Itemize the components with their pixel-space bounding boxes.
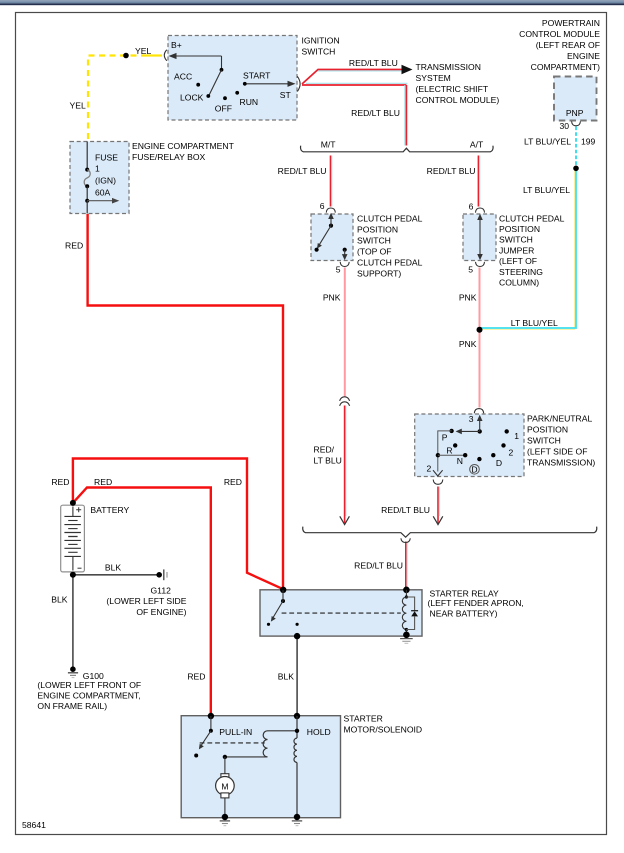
svg-text:CONTROL MODULE): CONTROL MODULE) [416,95,500,105]
svg-text:POSITION: POSITION [357,225,398,235]
clutch pedal position switch jumper box (A/T) [463,214,496,261]
connector terminal clutch switch pin 5 [340,262,349,267]
ignition position labels [174,71,292,114]
label transmission system [416,62,500,105]
svg-text:SWITCH: SWITCH [499,235,533,245]
svg-text:POSITION: POSITION [527,425,568,435]
label ignition switch [302,36,340,57]
svg-text:LOCK: LOCK [180,92,204,102]
circled D overdrive contact [470,464,480,474]
net label RED/LT BLU A/T branch [427,166,476,176]
hold winding [294,716,299,817]
svg-text:CLUTCH PEDAL: CLUTCH PEDAL [357,258,423,268]
svg-text:RED/LT BLU: RED/LT BLU [381,505,430,515]
svg-text:RED: RED [224,477,242,487]
option label A/T [470,140,484,150]
engine compartment fuse/relay box [70,142,129,214]
svg-text:SWITCH: SWITCH [357,236,391,246]
battery body [61,505,85,572]
net label LT BLU/YEL horizontal [511,318,558,328]
ignition switch internal B+ feed with arrow [169,53,224,72]
arrowhead of pin 2 wire into bottom bracket [433,516,443,524]
net label RED battery up wire [51,477,69,487]
svg-text:NEAR BATTERY): NEAR BATTERY) [430,609,498,619]
svg-text:RED: RED [65,241,83,251]
starter solenoid armature dashed link [200,742,265,744]
starter motor M [216,755,235,817]
clutch pedal position switch internal contacts and blade [315,213,334,252]
svg-text:6: 6 [320,201,325,211]
svg-text:STARTER: STARTER [344,714,383,724]
svg-text:58641: 58641 [22,820,46,830]
label clutch pedal position switch [357,214,423,279]
label starter motor/solenoid [344,714,423,735]
svg-text:BATTERY: BATTERY [90,505,129,515]
net label RED/LT BLU to transmission [349,58,398,68]
svg-text:RED: RED [51,477,69,487]
svg-text:IGNITION: IGNITION [302,36,340,46]
svg-text:(LEFT REAR OF: (LEFT REAR OF [536,40,600,50]
svg-text:RED: RED [187,671,205,681]
wire RED from fuse box to starter relay [88,214,283,589]
svg-text:3: 3 [469,414,474,424]
net label RED/LT BLU pin2 wire [381,505,430,515]
label pull-in winding [219,727,252,737]
option label M/T [321,140,337,150]
label battery [90,505,129,515]
net label YEL top [135,46,151,56]
junction node LT BLU/YEL at PCM branch [573,166,579,172]
net label BLK to G100 [51,595,68,605]
pin label B+ [171,40,182,50]
svg-text:199: 199 [581,137,596,147]
svg-text:BLK: BLK [105,563,122,573]
net label RED/LT BLU M/T branch [278,166,327,176]
arrowhead of M/T wire into bottom bracket [340,516,350,524]
label starter relay [428,589,524,619]
gear position labels P R N D 2 1 [442,431,520,468]
motor M designator [221,781,228,791]
wire RED/LT BLU M/T branch [331,156,332,207]
connector terminal park/neutral pin 2 [433,480,443,485]
svg-text:PNK: PNK [323,293,341,303]
wire PNK from splice to park/neutral switch pin 3 [479,330,481,408]
connector terminal park/neutral pin 3 [474,409,483,414]
svg-text:RED: RED [94,477,112,487]
battery internal plates and polarity [64,507,81,571]
svg-text:1: 1 [95,164,100,174]
arrowhead into transmission system [402,65,413,74]
pin number 30 [559,121,569,131]
starter relay clamp diode D1 [406,597,418,630]
svg-text:ACC: ACC [174,71,192,81]
bottom collector bracket [303,527,597,538]
svg-text:RED/LT BLU: RED/LT BLU [354,561,403,571]
svg-text:N: N [457,456,463,466]
net label RED/LT BLU vertical feed [351,108,400,118]
svg-text:(ELECTRIC SHIFT: (ELECTRIC SHIFT [416,84,489,94]
net label RED battery lower wire [94,477,112,487]
pin label PNP [566,108,584,118]
svg-text:YEL: YEL [135,46,151,56]
pin number 2 [427,464,432,474]
wire RED/LT BLU to transmission system [302,70,402,85]
svg-text:5: 5 [468,264,473,274]
park/neutral contact P wired to pin 2 [433,429,454,476]
wire YEL solid stub into ignition B+ [147,54,162,56]
net label LT BLU/YEL lower [523,185,570,195]
pin number 6 clutch switch [320,201,325,211]
svg-text:POWERTRAIN: POWERTRAIN [542,18,600,28]
svg-text:ENGINE: ENGINE [567,51,600,61]
svg-text:R: R [446,446,452,456]
wire RED/LT BLU below break to bracket arrow [345,406,346,524]
fuse F1 value labels [95,153,118,198]
wire BLK battery negative to G100 [72,575,74,669]
svg-text:HOLD: HOLD [307,727,331,737]
starter relay switch blade [267,590,285,626]
connector cup under bottom bracket [401,538,410,542]
wire RED/LT BLU from park/neutral pin 2 to bracket arrow [438,487,439,524]
net label RED/ LT BLU two lines [314,445,342,466]
ignition switch module box [168,36,297,121]
svg-text:RED/: RED/ [314,445,335,455]
connector terminal jumper pin 5 [476,262,485,267]
svg-text:RED/LT BLU: RED/LT BLU [351,108,400,118]
net label BLK to G112 [105,563,122,573]
connector terminal clutch switch pin 6 [326,208,335,213]
wire LT BLU/YEL from splice down and left to PNK junction [480,168,576,329]
wire break symbol on PNK / RED-LT BLU wire [340,397,350,406]
starter relay terminal node from battery/fuse [280,587,286,593]
park/neutral contact N tap to pin 2 line [436,453,468,457]
svg-text:PARK/NEUTRAL: PARK/NEUTRAL [527,414,592,424]
wire BLK battery negative to G112 [73,574,159,576]
svg-text:SWITCH: SWITCH [302,47,336,57]
svg-text:2: 2 [427,464,432,474]
starter relay box [260,590,422,636]
svg-text:OF ENGINE): OF ENGINE) [136,607,186,617]
label ground G100 [37,671,141,711]
top window chrome bar [0,0,624,5]
starter relay switch output contact and terminal [294,623,300,640]
label powertrain control module [519,18,600,72]
label ground G112 [106,585,186,617]
starter relay coil [402,587,409,639]
wire RED/LT BLU A/T branch [478,156,479,207]
ignition switch position contacts ACC LOCK OFF RUN START [196,82,246,100]
svg-text:60A: 60A [95,188,111,198]
park/neutral switch blade pointing at P contact [456,429,480,435]
svg-text:ENGINE COMPARTMENT,: ENGINE COMPARTMENT, [37,691,140,701]
svg-text:BLK: BLK [51,595,68,605]
svg-text:(LOWER LEFT FRONT OF: (LOWER LEFT FRONT OF [37,680,141,690]
svg-text:30: 30 [559,121,569,131]
svg-text:START: START [243,71,271,81]
svg-text:PNP: PNP [566,108,584,118]
net label RED near relay feed [224,477,242,487]
wire RED/LT BLU from ST down to M/T A/T bracket [302,83,408,145]
svg-text:LT BLU/YEL: LT BLU/YEL [511,318,558,328]
svg-text:STARTER RELAY: STARTER RELAY [430,589,500,599]
connector terminal jumper pin 6 [476,208,485,213]
svg-text:1: 1 [514,431,519,441]
label engine compartment fuse/relay box [132,141,235,162]
wire RED battery positive to starter solenoid pull-in [73,488,211,717]
ground G100 symbol [68,666,78,677]
diagram number 58641 [22,820,46,830]
svg-text:JUMPER: JUMPER [499,245,534,255]
svg-text:RED/LT BLU: RED/LT BLU [278,166,327,176]
net label RED below fuse box [65,241,83,251]
wire RED battery positive to starter relay [73,459,283,590]
connector terminal at ignition ST [297,76,300,91]
svg-text:MOTOR/SOLENOID: MOTOR/SOLENOID [344,725,423,735]
svg-text:STEERING: STEERING [499,267,543,277]
powertrain control module box U-PCM [554,77,597,121]
svg-text:(LEFT SIDE OF: (LEFT SIDE OF [527,447,587,457]
pull-in winding [225,731,297,757]
svg-text:ST: ST [280,90,292,100]
connector terminal PCM pin 30 [572,121,581,125]
connector terminal at ignition B+ [164,50,167,61]
svg-text:COMPARTMENT): COMPARTMENT) [531,62,601,72]
ignition switch blade (LOCK position) [209,70,222,96]
svg-text:A/T: A/T [470,140,484,150]
starter motor/solenoid box [181,716,340,818]
svg-text:2: 2 [509,448,514,458]
svg-text:OFF: OFF [215,104,232,114]
pin number 5 jumper [468,264,473,274]
svg-text:SUPPORT): SUPPORT) [357,269,401,279]
net label PNK below splice [459,339,477,349]
net label YEL left [70,101,86,111]
svg-text:PNK: PNK [459,293,477,303]
net label BLK relay to solenoid [278,671,295,681]
label clutch pedal position switch jumper [499,213,565,287]
svg-text:POSITION: POSITION [499,224,540,234]
svg-text:RED/LT BLU: RED/LT BLU [427,166,476,176]
net label PNK right [459,293,477,303]
svg-text:D: D [471,464,477,474]
starter solenoid BLK input terminal [294,713,300,719]
svg-text:M: M [221,781,228,791]
svg-text:(LEFT FENDER APRON,: (LEFT FENDER APRON, [428,598,524,608]
battery negative junction node [70,572,76,578]
svg-text:FUSE/RELAY BOX: FUSE/RELAY BOX [132,152,205,162]
svg-text:B+: B+ [171,40,182,50]
label park/neutral position switch [527,414,595,468]
splice node on YEL wire [123,53,129,59]
pin number 3 [469,414,474,424]
wire LT BLU/YEL dashed from PCM pin 30 [575,127,577,169]
svg-text:6: 6 [469,201,474,211]
svg-text:G112: G112 [151,585,172,595]
starter solenoid RED input terminal [208,713,214,719]
svg-text:CLUTCH PEDAL: CLUTCH PEDAL [357,214,423,224]
starter motor ground terminal and symbol [220,814,230,826]
hold winding ground terminal and symbol [292,814,302,826]
net label RED/LT BLU to starter relay [354,561,403,571]
net label LT BLU/YEL with circuit 199 [524,137,596,147]
svg-text:LT BLU: LT BLU [314,456,342,466]
fuse F1 internal lead and element [84,142,90,214]
pin number 5 clutch switch [336,265,341,275]
svg-text:YEL: YEL [70,101,86,111]
svg-text:TRANSMISSION): TRANSMISSION) [527,458,595,468]
park/neutral position switch box [415,414,524,477]
junction node PNK / LT BLU/YEL splice [477,327,483,333]
ground symbol under starter relay coil [400,639,413,644]
svg-text:5: 5 [336,265,341,275]
battery positive junction node [70,500,76,506]
clutch jumper internal double-ended arrow [477,214,483,260]
svg-text:LT BLU/YEL: LT BLU/YEL [523,185,570,195]
starter relay armature dashed link [282,612,401,614]
wire BLK starter relay to solenoid hold [296,636,298,716]
svg-text:COLUMN): COLUMN) [499,278,539,288]
svg-text:(TOP OF: (TOP OF [357,247,392,257]
fuse feed arrow inside fuse box [87,198,119,204]
net label RED to solenoid [187,671,205,681]
starter solenoid contact switch blade [194,716,213,758]
svg-text:TRANSMISSION: TRANSMISSION [416,62,481,72]
svg-text:PNK: PNK [459,339,477,349]
label hold winding [307,727,331,737]
svg-text:RED/LT BLU: RED/LT BLU [349,58,398,68]
pin number 6 jumper [469,201,474,211]
net label PNK left [323,293,341,303]
M/T A/T options bracket [301,146,494,152]
clutch switch pin 5 contact with arrow out [342,248,348,261]
park/neutral switch common with arrow to pin 3 [477,415,483,434]
svg-text:CLUTCH PEDAL: CLUTCH PEDAL [499,213,565,223]
svg-text:ON FRAME RAIL): ON FRAME RAIL) [37,701,107,711]
svg-text:M/T: M/T [321,140,337,150]
svg-text:ENGINE COMPARTMENT: ENGINE COMPARTMENT [132,141,235,151]
svg-text:(LEFT OF: (LEFT OF [499,256,537,266]
svg-text:LT BLU/YEL: LT BLU/YEL [524,137,571,147]
svg-text:SYSTEM: SYSTEM [416,73,451,83]
wire PNK from M/T clutch switch pin 5 [344,268,346,398]
wire PNK from jumper pin 5 to splice [479,268,481,330]
svg-text:(IGN): (IGN) [95,176,116,186]
ground G112 symbol [156,569,167,580]
svg-text:RUN: RUN [240,97,259,107]
clutch pedal position switch box (M/T) [311,214,353,261]
svg-text:D: D [496,458,502,468]
ignition START output line with arrow to ST [247,81,296,87]
svg-text:BLK: BLK [278,671,295,681]
svg-text:(LOWER LEFT SIDE: (LOWER LEFT SIDE [106,596,186,606]
wire RED/LT BLU from bottom bracket to starter relay [406,542,407,590]
svg-text:SWITCH: SWITCH [527,436,561,446]
svg-text:P: P [442,433,448,443]
svg-text:PULL-IN: PULL-IN [219,727,252,737]
svg-text:FUSE: FUSE [95,153,118,163]
svg-text:CONTROL MODULE: CONTROL MODULE [519,29,600,39]
wire YEL dashed from splice to fuse box [88,56,147,142]
park/neutral contacts R D circled-D 2 1 [453,429,509,461]
